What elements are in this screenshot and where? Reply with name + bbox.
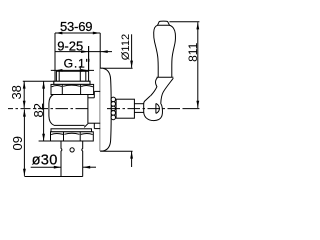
valve body thread G1: [56, 46, 88, 81]
washer above lower nut: [51, 129, 92, 132]
hex nut lower: [51, 132, 94, 141]
dimension 90: [10, 109, 26, 175]
washer under thread: [54, 81, 90, 84]
outlet pipe Ø30: [61, 141, 83, 177]
ball end cap in socket: [156, 103, 160, 113]
knob skirt: [157, 76, 174, 78]
svg-text:Ø112: Ø112: [120, 34, 132, 61]
svg-text:9-25: 9-25: [57, 38, 83, 53]
svg-text:09: 09: [10, 136, 25, 150]
svg-text:53-69: 53-69: [60, 19, 92, 34]
extension line flange bottom: [100, 150, 132, 152]
shaft housing box: [116, 99, 134, 118]
extension line flange top: [100, 67, 132, 69]
lever arm left edge: [150, 78, 157, 96]
centerline: [8, 108, 199, 110]
extension line knob top: [169, 21, 199, 23]
dimension G.1": [51, 56, 94, 72]
lever socket knuckle: [144, 96, 163, 121]
extension line wall side x55: [54, 33, 56, 81]
dimension 118: [186, 22, 200, 108]
hex nut upper: [51, 84, 94, 94]
shaft neck: [134, 104, 143, 113]
svg-text:38: 38: [9, 85, 24, 99]
svg-text:ø30: ø30: [32, 152, 58, 168]
wall flange Ø112 edge-on: [100, 68, 111, 151]
valve body middle: [49, 91, 100, 128]
knob top cap: [158, 21, 170, 25]
extension line pipe bottom: [24, 176, 82, 178]
leader from G text to thread x80.3: [79, 66, 81, 81]
dimension 38: [9, 81, 25, 108]
dimension ø30: [31, 152, 96, 168]
svg-text:G.1": G.1": [64, 56, 91, 70]
lever arm right edge: [161, 78, 174, 103]
dimension Ø112: [120, 34, 133, 167]
dimension 82: [31, 81, 46, 140]
extension line x88.6 upper: [88, 46, 90, 71]
extension line flange face x100.2: [99, 33, 101, 151]
extension line lower nut bottom: [39, 140, 94, 142]
dimension 53-69: [55, 19, 100, 34]
pipe hole: [70, 148, 74, 152]
knob left profile: [154, 25, 159, 77]
knurled nut on flange hub: [111, 97, 115, 120]
dimension 9-25: [55, 38, 112, 53]
extension line washer top left y81.2: [23, 80, 54, 82]
knob right profile: [169, 25, 175, 77]
